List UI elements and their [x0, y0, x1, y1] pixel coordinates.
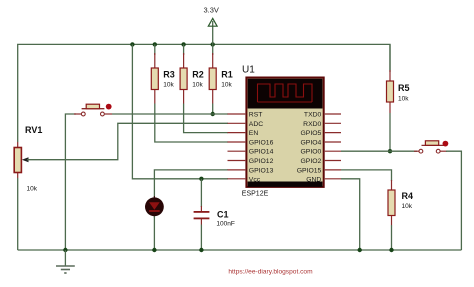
chip U1 ESP12E	[242, 64, 324, 197]
wire R1 to RST net	[212, 104, 214, 115]
svg-text:R2: R2	[192, 70, 204, 80]
svg-text:R1: R1	[221, 70, 233, 80]
wire GPIO13 to LED	[154, 170, 228, 198]
potentiometer RV1	[14, 125, 42, 193]
node junction rail-GND wire	[358, 248, 362, 252]
node junction R5-GPIO0	[388, 149, 392, 153]
svg-text:GPIO13: GPIO13	[249, 167, 274, 174]
ground symbol	[56, 250, 75, 273]
svg-text:GPIO5: GPIO5	[301, 130, 322, 137]
pin GPIO5	[301, 130, 341, 137]
svg-text:10k: 10k	[192, 82, 203, 89]
wire GPIO0 to button2	[341, 150, 417, 152]
svg-text:10k: 10k	[221, 82, 232, 89]
resistor R1	[209, 53, 233, 104]
svg-text:ESP12E: ESP12E	[242, 191, 269, 198]
svg-text:U1: U1	[242, 64, 255, 75]
pin GPIO0	[301, 149, 341, 156]
svg-text:ADC: ADC	[249, 121, 263, 128]
node junction rail-ground	[63, 248, 67, 252]
wire R4 bottom to rail	[391, 225, 393, 250]
wire button2 to ground rail	[446, 151, 461, 250]
wire bus to R1	[212, 44, 214, 55]
svg-text:GPIO2: GPIO2	[301, 158, 322, 165]
pin RXD0	[303, 121, 341, 128]
svg-text:10k: 10k	[27, 186, 38, 193]
pin GND	[306, 176, 341, 183]
node junction bus-R2	[181, 42, 185, 46]
svg-text:GPIO12: GPIO12	[249, 158, 274, 165]
resistor R3	[151, 53, 175, 104]
resistor R5	[387, 70, 410, 113]
wire R5 top from bus	[389, 44, 391, 72]
svg-text:100nF: 100nF	[216, 221, 234, 228]
svg-text:10k: 10k	[402, 203, 413, 210]
wire R5 bottom to GPIO0 net	[389, 113, 391, 151]
svg-text:GPIO4: GPIO4	[301, 140, 322, 147]
pin TXD0	[304, 112, 341, 119]
svg-text:GPIO0: GPIO0	[301, 149, 322, 156]
svg-text:EN: EN	[249, 130, 259, 137]
pin GPIO15	[297, 167, 341, 174]
node junction rail-LED	[152, 248, 156, 252]
node junction bus-R3	[153, 42, 157, 46]
wire button1 left to ground	[65, 114, 76, 250]
resistor R4	[388, 180, 413, 225]
svg-text:GPIO14: GPIO14	[249, 149, 274, 156]
node junction bus-Vcc column	[130, 42, 134, 46]
svg-text:GPIO16: GPIO16	[249, 140, 274, 147]
pin GPIO16	[228, 140, 274, 147]
svg-text:R3: R3	[163, 70, 175, 80]
svg-text:TXD0: TXD0	[304, 112, 322, 119]
wire GPIO15 to R4	[341, 170, 392, 181]
pin EN	[228, 130, 259, 137]
capacitor C1	[194, 206, 235, 228]
wire C1 bottom to rail	[200, 225, 202, 251]
wire bus to R2	[183, 44, 185, 55]
svg-text:R5: R5	[398, 83, 410, 93]
svg-text:https://ee-diary.blogspot.com: https://ee-diary.blogspot.com	[228, 269, 313, 276]
pin GPIO4	[301, 140, 341, 147]
wire bottom ground rail	[18, 249, 462, 251]
node junction rail-C1	[199, 248, 203, 252]
svg-text:10k: 10k	[163, 82, 174, 89]
svg-text:RV1: RV1	[25, 125, 42, 135]
svg-text:3.3V: 3.3V	[204, 6, 219, 15]
svg-text:10k: 10k	[398, 96, 409, 103]
node junction R1-RST	[211, 112, 215, 116]
pin RST	[228, 112, 263, 119]
svg-text:GND: GND	[306, 176, 321, 183]
node junction rail-R4	[389, 248, 393, 252]
wire button1 to RST	[112, 113, 228, 115]
wire LED bottom to rail	[153, 216, 155, 250]
push button (flash)	[414, 141, 448, 153]
pin ADC	[228, 121, 264, 128]
wire RV1 wiper to ADC	[27, 123, 228, 159]
power 3.3V symbol	[204, 6, 219, 45]
svg-text:GPIO15: GPIO15	[297, 167, 322, 174]
wire GND pin down	[341, 179, 360, 250]
wire R2 to EN	[184, 104, 228, 133]
led D1	[145, 196, 164, 218]
wire C1 top	[200, 179, 202, 207]
wire R3 to GPIO16	[155, 104, 228, 143]
push button (reset)	[74, 104, 112, 116]
node junction bus-R1/3.3V	[211, 42, 215, 46]
wire bus to R3	[154, 44, 156, 55]
wire Vcc net from bus	[132, 44, 228, 178]
svg-text:RXD0: RXD0	[303, 121, 321, 128]
pin GPIO13	[228, 167, 274, 174]
pin GPIO12	[228, 158, 274, 165]
pin GPIO14	[228, 149, 274, 156]
svg-text:Vcc: Vcc	[249, 176, 261, 183]
svg-text:RST: RST	[249, 112, 263, 119]
svg-text:R4: R4	[402, 191, 414, 201]
svg-text:C1: C1	[217, 210, 229, 220]
pin GPIO2	[301, 158, 341, 165]
pin Vcc	[228, 176, 261, 183]
resistor R2	[180, 53, 204, 104]
wire RV1 bottom to ground rail	[17, 178, 19, 250]
node junction Vcc-C1	[199, 177, 203, 181]
wire top 3.3V bus	[18, 44, 390, 142]
